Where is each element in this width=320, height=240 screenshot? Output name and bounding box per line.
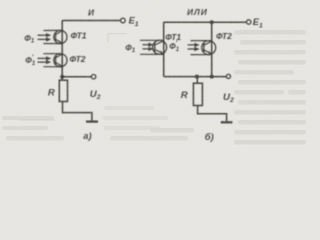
paper grain (decorative) xyxy=(0,0,310,148)
terminal E1 (OR) xyxy=(247,20,251,24)
wire: FT1 branch (OR) xyxy=(163,22,165,76)
phototransistor ФТ2 (AND) xyxy=(38,54,68,68)
faint ghost marks (decorative) xyxy=(20,34,127,121)
terminal E1 (AND) xyxy=(121,18,126,23)
wire: emitter rail (OR) xyxy=(164,76,227,78)
ground (OR) xyxy=(221,121,233,123)
phototransistor ФТ1 (AND) xyxy=(38,30,68,44)
wire: output branch (AND) xyxy=(62,76,91,78)
node: R junction (OR) xyxy=(195,75,199,79)
wire: E1 supply rail (AND) xyxy=(62,20,120,22)
wire: E1 supply rail (OR) xyxy=(164,21,247,23)
wire: R to ground (OR) xyxy=(198,106,227,122)
node: FT2 emitter junction (OR) xyxy=(210,75,214,79)
ground (AND) xyxy=(86,120,98,122)
resistor R (OR) xyxy=(193,83,202,105)
phototransistor ФТ1 (OR) xyxy=(140,40,167,55)
wire: rail to resistor stub (OR) xyxy=(196,77,198,84)
wire: R to ground (AND) xyxy=(63,102,92,121)
terminal u2 output (OR) xyxy=(226,74,230,78)
faint scan bleed-through (decorative) xyxy=(2,30,306,145)
terminal u2 output (AND) xyxy=(91,75,95,79)
resistor R (AND) xyxy=(59,80,67,101)
phototransistor ФТ2 (OR) xyxy=(188,41,216,56)
wire: FT2 branch (OR) xyxy=(211,22,213,76)
node: emitter / R / output junction (AND) xyxy=(60,75,64,79)
wire: vertical collector-emitter chain (AND) xyxy=(61,21,63,81)
node: FT2 collector tap (OR) xyxy=(210,20,214,24)
